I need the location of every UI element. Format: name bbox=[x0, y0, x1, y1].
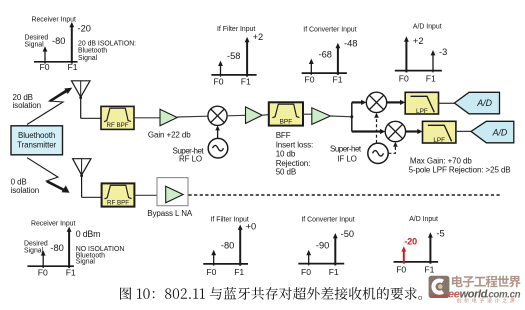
svg-text:Signal: Signal bbox=[25, 42, 45, 49]
svg-text:F1: F1 bbox=[426, 74, 436, 84]
svg-text:0 dBm: 0 dBm bbox=[76, 229, 100, 239]
svg-text:50 dB: 50 dB bbox=[276, 168, 296, 177]
mixer: RF downconversion mixer bbox=[208, 106, 227, 125]
svg-text:Bypass L NA: Bypass L NA bbox=[147, 209, 193, 218]
svg-text:F0: F0 bbox=[396, 265, 406, 275]
svg-text:Rejection:: Rejection: bbox=[276, 159, 311, 168]
svg-text:F0: F0 bbox=[206, 267, 216, 277]
svg-text:-3: -3 bbox=[439, 47, 447, 57]
svg-text:20 dB ISOLATION:: 20 dB ISOLATION: bbox=[78, 40, 136, 47]
wire: junction to I mixer (arrow) bbox=[352, 100, 367, 105]
svg-text:A/D: A/D bbox=[492, 127, 508, 137]
svg-text:LPF: LPF bbox=[416, 108, 428, 115]
watermark: eeworld logo square bbox=[429, 276, 450, 298]
svg-text:-80: -80 bbox=[50, 243, 63, 253]
amplifier: bypass LNA bbox=[147, 178, 193, 219]
label: 0 dB isolation bbox=[11, 178, 39, 196]
svg-text:BPF: BPF bbox=[279, 118, 292, 125]
svg-text:F0: F0 bbox=[40, 62, 50, 72]
svg-text:A/D: A/D bbox=[476, 98, 492, 108]
svg-text:Desired: Desired bbox=[25, 34, 49, 41]
wire: junction to Q mixer (arrow) bbox=[352, 129, 385, 134]
svg-text:If Converter Input: If Converter Input bbox=[301, 216, 354, 223]
svg-text:F0: F0 bbox=[305, 75, 315, 85]
wire: RF LO to mixer (arrow) bbox=[215, 125, 220, 138]
watermark: eeworld slogan bbox=[457, 298, 515, 303]
svg-text:Max Gain: +70 db: Max Gain: +70 db bbox=[410, 156, 472, 165]
amplifier: IF amp 1 bbox=[246, 107, 263, 124]
wire: LPF to A/D (I) bbox=[439, 102, 455, 104]
filter: RF BPF (lower) bbox=[102, 183, 135, 206]
svg-text:-20: -20 bbox=[404, 237, 417, 247]
filter: RF BPF (upper) bbox=[101, 106, 134, 129]
svg-text:A/D Input: A/D Input bbox=[413, 23, 442, 30]
svg-text:-50: -50 bbox=[341, 229, 354, 239]
svg-text:+2: +2 bbox=[253, 32, 264, 42]
svg-text:F1: F1 bbox=[68, 62, 78, 72]
filter: LPF (I channel) bbox=[405, 92, 438, 115]
svg-text:RF LO: RF LO bbox=[179, 155, 202, 164]
amplifier: LNA Gain +22 db bbox=[148, 109, 191, 139]
wire: lower antenna to RF BPF bbox=[82, 196, 102, 198]
svg-text:10 db: 10 db bbox=[276, 150, 296, 159]
filter: IF BPF bbox=[269, 102, 313, 176]
svg-text:A/D Input: A/D Input bbox=[409, 216, 438, 223]
svg-text:Signal: Signal bbox=[78, 55, 98, 62]
svg-text:RF BPF: RF BPF bbox=[106, 122, 128, 129]
spectrum: IF converter input (bottom) bbox=[298, 216, 354, 277]
wire: RF BPF to LNA bbox=[134, 117, 160, 119]
antenna: lower receive antenna bbox=[73, 159, 91, 198]
svg-text:F1: F1 bbox=[241, 77, 251, 87]
svg-text:If Converter Input: If Converter Input bbox=[303, 26, 356, 33]
svg-text:-5: -5 bbox=[436, 228, 444, 238]
adc: A/D converter (Q channel) bbox=[471, 121, 514, 143]
mixer: Q mixer bbox=[385, 121, 405, 141]
svg-text:-80: -80 bbox=[52, 36, 65, 46]
oscillator: Super-het IF LO bbox=[330, 143, 388, 163]
spectrum: A/D input (bottom) bbox=[394, 216, 445, 275]
wire: BPF to IF amp 2 bbox=[303, 113, 312, 115]
svg-text:F1: F1 bbox=[424, 265, 434, 275]
svg-text:Bluetooth: Bluetooth bbox=[78, 48, 107, 55]
wire: LNA to RF mixer bbox=[177, 115, 208, 118]
svg-text:-58: -58 bbox=[227, 51, 240, 61]
label: 20 dB isolation bbox=[13, 93, 41, 110]
svg-text:.com.cn: .com.cn bbox=[486, 290, 521, 301]
svg-text:Insert loss:: Insert loss: bbox=[276, 140, 313, 149]
wire: IF LO to Q mixer (dashed arrow) bbox=[388, 142, 397, 154]
arrow: 0 dB isolation path to lower antenna bbox=[27, 158, 69, 193]
antenna: upper receive antenna bbox=[72, 81, 91, 119]
bluetooth transmitter box bbox=[11, 126, 63, 155]
wire: upper antenna to RF BPF bbox=[81, 117, 101, 119]
svg-text:F0: F0 bbox=[214, 77, 224, 87]
svg-text:isolation: isolation bbox=[13, 101, 41, 110]
svg-text:BFF: BFF bbox=[276, 131, 291, 140]
svg-text:F0: F0 bbox=[38, 268, 48, 278]
spectrum: IF filter input (bottom) bbox=[203, 216, 256, 277]
wire: IF LO to I mixer (dashed arrow) bbox=[374, 113, 379, 143]
svg-text:Transmitter: Transmitter bbox=[17, 141, 56, 150]
wire: RF mixer to IF amp bbox=[227, 114, 245, 117]
svg-text:-80: -80 bbox=[221, 241, 234, 251]
wire: IF amp to BPF bbox=[262, 114, 269, 117]
amplifier: IF amp 2 bbox=[312, 108, 331, 125]
svg-text:If Filter Input: If Filter Input bbox=[211, 216, 249, 223]
svg-text:Bluethooth: Bluethooth bbox=[18, 131, 55, 140]
arrow: 20 dB isolation path to upper antenna bbox=[27, 88, 72, 125]
svg-text:IF LO: IF LO bbox=[337, 154, 357, 163]
svg-text:-90: -90 bbox=[316, 241, 329, 251]
svg-text:F0: F0 bbox=[301, 267, 311, 277]
svg-text:F1: F1 bbox=[234, 267, 244, 277]
svg-text:LPF: LPF bbox=[433, 137, 445, 144]
svg-text:5-pole LPF Rejection: >25 dB: 5-pole LPF Rejection: >25 dB bbox=[409, 166, 511, 175]
svg-text:Super-het: Super-het bbox=[330, 144, 362, 153]
spectrum: receiver input (top, 20dB isolation) bbox=[25, 16, 137, 72]
svg-text:-68: -68 bbox=[319, 49, 332, 59]
wire: LPF to A/D (Q) bbox=[456, 130, 471, 132]
watermark: eeworld.com.cn bbox=[448, 289, 521, 301]
svg-text:Receiver Input: Receiver Input bbox=[32, 16, 77, 23]
oscillator: Super-het RF LO bbox=[173, 138, 228, 163]
wire: Q mixer to LPF (arrow) bbox=[406, 129, 423, 134]
wire: RF BPF to bypass LNA bbox=[134, 194, 157, 196]
filter: LPF (Q channel) bbox=[423, 121, 456, 144]
svg-text:F1: F1 bbox=[66, 268, 76, 278]
svg-text:Signal: Signal bbox=[76, 259, 96, 266]
svg-text:If Filter Input: If Filter Input bbox=[217, 26, 255, 33]
svg-text:-20: -20 bbox=[78, 24, 91, 34]
label: max gain note bbox=[409, 156, 511, 174]
svg-text:RF BPF: RF BPF bbox=[107, 200, 129, 207]
svg-text:isolation: isolation bbox=[11, 186, 39, 195]
svg-text:-48: -48 bbox=[344, 39, 357, 49]
svg-text:F1: F1 bbox=[333, 75, 343, 85]
svg-text:+0: +0 bbox=[246, 222, 257, 232]
svg-text:Receiver Input: Receiver Input bbox=[31, 221, 76, 228]
svg-text:F0: F0 bbox=[399, 74, 409, 84]
wire: bypass output dashed line bbox=[189, 194, 502, 196]
adc: A/D converter (I channel) bbox=[454, 92, 499, 114]
svg-text:Signal: Signal bbox=[24, 247, 44, 254]
spectrum: IF filter input (top) bbox=[211, 26, 263, 86]
svg-text:Desired: Desired bbox=[24, 240, 48, 247]
wire: IF amp 2 to I/Q split junction bbox=[330, 102, 353, 131]
watermark: eeworld chinese title bbox=[452, 276, 521, 288]
spectrum: receiver input (bottom, no isolation) bbox=[24, 221, 124, 278]
wire: I mixer to LPF (arrow) bbox=[387, 100, 405, 105]
spectrum: IF converter input (top) bbox=[302, 26, 358, 84]
svg-text:Gain +22 db: Gain +22 db bbox=[148, 130, 191, 139]
mixer: I mixer bbox=[366, 92, 386, 112]
svg-text:F1: F1 bbox=[329, 267, 339, 277]
spectrum: A/D input (top) bbox=[395, 23, 447, 83]
caption: figure 10 bbox=[120, 287, 422, 300]
svg-text:+2: +2 bbox=[413, 36, 424, 46]
